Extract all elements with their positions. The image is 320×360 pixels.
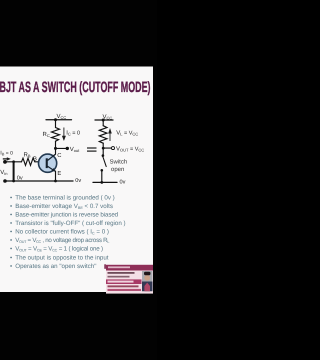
switch top lead: [102, 148, 104, 154]
svg-text:No collector current flows ( I: No collector current flows ( IC = 0 ): [15, 229, 109, 236]
svg-text:Base-emitter junction is rever: Base-emitter junction is reverse biased: [15, 212, 118, 219]
video white content area: [0, 67, 153, 293]
switch bottom lead: [101, 171, 103, 182]
svg-text:open: open: [111, 167, 124, 173]
node to Vout terminal (right): [103, 147, 111, 149]
bullet list text: [10, 194, 126, 269]
switch blade (open): [103, 157, 106, 167]
terminal Vout left: [66, 147, 69, 150]
wire RB to base: [35, 161, 46, 163]
transistor Q1 (NPN) body: [39, 154, 57, 172]
resistor RB: [22, 158, 35, 165]
svg-text:•: •: [10, 254, 12, 261]
svg-text:Vout: Vout: [70, 146, 80, 153]
node to Vout terminal: [56, 147, 66, 149]
emitter wire: [47, 167, 55, 181]
svg-text:VCC: VCC: [103, 113, 113, 120]
left bottom rail: [5, 180, 73, 182]
svg-text:Switch: Switch: [110, 159, 128, 166]
svg-text:Operates as an "open switch": Operates as an "open switch": [15, 263, 96, 270]
svg-text:•: •: [10, 237, 12, 244]
svg-text:•: •: [10, 246, 12, 253]
rail junction right: [100, 181, 103, 184]
node right: [102, 147, 105, 150]
svg-text:•: •: [10, 263, 12, 270]
VL voltage arrow (up): [108, 128, 112, 141]
svg-text:VOUT = VCE = VCC = 1 ( logical: VOUT = VCE = VCC = 1 ( logical one ): [15, 246, 103, 253]
left circuit top rail: [46, 119, 72, 121]
svg-text:VOUT = VCC: VOUT = VCC: [116, 145, 144, 152]
Ic current arrow (down): [62, 128, 66, 142]
svg-text:0v: 0v: [17, 176, 23, 182]
svg-text:The output is opposite to the: The output is opposite to the input: [15, 254, 109, 261]
svg-text:•: •: [10, 220, 12, 227]
wire base-to-ground branch: [13, 162, 15, 181]
svg-text:IC = 0: IC = 0: [66, 129, 80, 136]
presenter photo: [142, 271, 153, 291]
transistor collector stroke: [48, 155, 56, 161]
ground branch junction bottom: [12, 180, 15, 183]
svg-text:0v: 0v: [75, 178, 81, 184]
node collector: [54, 147, 57, 150]
switch top contact: [102, 154, 105, 157]
wire resistor to node: [102, 143, 104, 148]
collector wire: [47, 148, 55, 160]
transistor base bar: [46, 158, 48, 168]
svg-text:•: •: [10, 212, 12, 219]
svg-text:Base-emitter voltage VBE < 0.7: Base-emitter voltage VBE < 0.7 volts: [15, 203, 113, 210]
right bottom rail: [93, 181, 117, 183]
emitter arrowhead: [51, 168, 55, 172]
svg-text:VOUT = VCC , no voltage drop a: VOUT = VCC , no voltage drop across RL: [15, 237, 109, 244]
right circuit top rail: [95, 119, 113, 121]
wire Vcc to resistor Rc: [55, 120, 57, 128]
svg-text:C: C: [57, 152, 61, 159]
ground terminal: [3, 179, 7, 183]
svg-text:•: •: [10, 203, 12, 210]
resistor RL (load): [99, 126, 107, 144]
svg-text:RC: RC: [43, 131, 50, 138]
channel overlay card: [104, 264, 153, 293]
svg-text:RB: RB: [24, 151, 31, 158]
equivalence sign (=) between circuits: [87, 147, 97, 151]
switch bottom contact: [101, 169, 104, 172]
Ib current arrow (right): [3, 157, 11, 160]
resistor RC: [52, 128, 60, 142]
terminal Vout right (open): [112, 147, 115, 150]
svg-text:E: E: [57, 171, 61, 177]
junction dots: [3, 118, 105, 184]
svg-text:VL = VCC: VL = VCC: [116, 130, 138, 137]
svg-text:Vin: Vin: [0, 169, 7, 176]
wire to load resistor: [102, 120, 104, 126]
svg-text:B: B: [33, 157, 37, 163]
input terminal Vin: [3, 160, 7, 164]
svg-text:•: •: [10, 229, 12, 236]
junction Vcc rail right: [102, 119, 105, 122]
svg-text:The base terminal is grounded: The base terminal is grounded ( 0v ): [15, 194, 114, 201]
wire resistor to node: [55, 141, 57, 148]
input wire: [7, 161, 22, 163]
svg-text:Transistor is "fully-OFF" ( cu: Transistor is "fully-OFF" ( cut-off regi…: [15, 220, 125, 227]
junction Vcc rail left: [54, 118, 57, 121]
svg-text:•: •: [10, 194, 12, 201]
svg-text:BJT AS A SWITCH (CUTOFF MODE): BJT AS A SWITCH (CUTOFF MODE): [0, 79, 151, 96]
circuit labels: [0, 113, 144, 185]
emitter junction: [54, 180, 57, 183]
transistor emitter stroke with arrow: [48, 166, 55, 170]
svg-text:0v: 0v: [120, 179, 126, 185]
ground branch junction top: [12, 160, 15, 163]
svg-text:VCC: VCC: [57, 113, 67, 120]
